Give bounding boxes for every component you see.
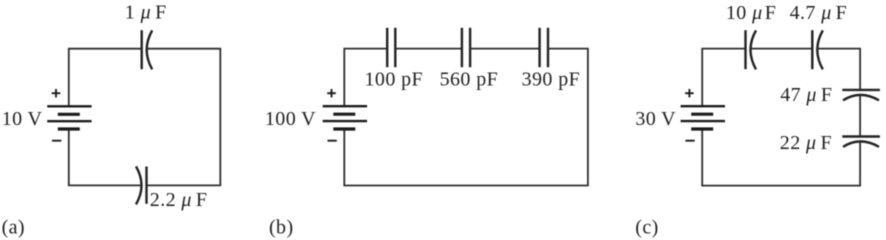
- wire: circuit (b) left upper segment + top wire to C3: [344, 49, 387, 107]
- svg-text:47 μF: 47 μF: [780, 84, 832, 106]
- source value label 100 V: [265, 108, 316, 130]
- wire: circuit (c) right side between C8 and C9: [859, 95, 861, 136]
- svg-text:22 μF: 22 μF: [780, 132, 832, 154]
- figure label (a): [2, 217, 25, 239]
- wire: circuit (c) top wire from C7 + right side down to C8: [817, 49, 860, 90]
- capacitor C5 390pF (two straight plates): [540, 28, 548, 67]
- capacitor C2 2.2uF (bottom of circuit a, curved plate + straight plate): [136, 166, 147, 204]
- svg-text:560 pF: 560 pF: [440, 68, 499, 90]
- wire: circuit (a) left upper segment + top wire to C1: [69, 49, 142, 107]
- battery minus terminal mark (c): [685, 140, 694, 142]
- figure label (c): [635, 217, 658, 239]
- value label 22 uF: [780, 132, 832, 154]
- source value label 30 V: [635, 108, 676, 130]
- value label 2.2 uF: [150, 189, 208, 211]
- capacitor C3 100pF (two straight plates): [387, 28, 395, 67]
- wire: circuit (a) bottom wire from C2 + left lower segment to battery: [69, 129, 142, 185]
- svg-text:100 V: 100 V: [265, 108, 316, 130]
- capacitor C8 47uF (right side of circuit c, straight + curved plates): [842, 90, 880, 101]
- svg-text:(c): (c): [635, 217, 658, 239]
- capacitor C7 4.7uF (straight plate + curved plate): [812, 30, 823, 69]
- wire: circuit (b) top-right + right side + bottom + left lower segment: [344, 49, 588, 186]
- svg-text:30 V: 30 V: [635, 108, 676, 130]
- svg-text:2.2 μF: 2.2 μF: [150, 189, 208, 211]
- svg-text:(b): (b): [269, 217, 294, 239]
- figure label (b): [269, 217, 294, 239]
- battery minus terminal mark (b): [328, 140, 337, 142]
- wire: circuit (b) top wire between C4 and C5: [470, 48, 539, 50]
- svg-text:1 μF: 1 μF: [125, 2, 167, 24]
- wire: circuit (a) top wire from C1 + right side down to bottom-right: [147, 49, 221, 186]
- wire: circuit (c) top wire between C6 and C7: [751, 48, 812, 50]
- wire: circuit (c) right lower + bottom wire + left lower segment to battery: [702, 129, 860, 186]
- svg-text:4.7 μF: 4.7 μF: [790, 2, 848, 24]
- value label 47 uF: [780, 84, 832, 106]
- svg-text:(a): (a): [2, 217, 25, 239]
- battery V1 10V (circuit a, alternating long/short plates): [47, 106, 91, 129]
- battery plus terminal mark (c): [685, 89, 694, 97]
- value label 390 pF: [522, 68, 581, 90]
- svg-text:100 pF: 100 pF: [365, 68, 424, 90]
- source value label 10 V: [2, 108, 43, 130]
- svg-text:10 V: 10 V: [2, 108, 43, 130]
- capacitor C6 10uF (straight plate + curved plate): [746, 30, 757, 69]
- battery minus terminal mark (a): [52, 140, 61, 142]
- battery plus terminal mark (b): [327, 89, 336, 97]
- capacitor C9 22uF (right side of circuit c, straight + curved plates): [842, 137, 880, 147]
- value label 560 pF: [440, 68, 499, 90]
- battery V2 100V (circuit b, alternating long/short plates): [323, 106, 367, 129]
- capacitor C1 1uF (top of circuit a, straight plate + curved plate): [142, 30, 153, 69]
- wire: circuit (b) top wire between C3 and C4: [395, 48, 462, 50]
- wire: circuit (c) left upper segment + top wire to C6: [702, 49, 745, 107]
- svg-text:390 pF: 390 pF: [522, 68, 581, 90]
- value label 100 pF: [365, 68, 424, 90]
- battery V3 30V (circuit c, alternating long/short plates): [681, 106, 725, 129]
- value label 10 uF: [726, 2, 776, 24]
- battery plus terminal mark (a): [52, 89, 61, 97]
- capacitor C4 560pF (two straight plates): [462, 28, 470, 67]
- value label 1 uF: [125, 2, 167, 24]
- svg-text:10 μF: 10 μF: [726, 2, 776, 24]
- value label 4.7 uF: [790, 2, 848, 24]
